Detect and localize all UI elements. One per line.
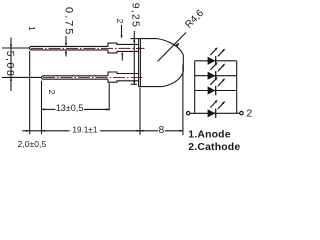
dim 13±0,5 line and arrows: [42, 108, 110, 110]
schematic rail wire 1: [195, 60, 237, 62]
dim 8 line and arrows: [140, 130, 183, 132]
LED body outline with dome: [139, 39, 184, 87]
dome tip extension line: [182, 65, 184, 136]
terminal 1 circle: [187, 112, 190, 115]
dim 0.75 line and arrows: [65, 36, 67, 57]
dim 9,25 line and arrows: [131, 31, 137, 84]
terminal 2 circle: [240, 111, 243, 114]
dim 5,08 line and arrows: [10, 38, 12, 92]
svg-text:13±0,5: 13±0,5: [56, 103, 83, 113]
schematic bottom wire: [190, 112, 239, 114]
dim 19.1±1 / 2,0±0,5 shared line: [22, 130, 140, 132]
schematic rail wire 2: [195, 75, 237, 77]
dim 13±0,5 extension lines: [30, 51, 110, 134]
lead L1 centerline (red dashed): [31, 47, 145, 49]
lead L2 centerline (red dashed): [43, 77, 145, 79]
lead L2 (cathode pin, bottom) outline: [42, 72, 139, 82]
svg-text:2: 2: [115, 19, 125, 24]
LED D1: [208, 47, 226, 65]
svg-text:1.Anode: 1.Anode: [188, 130, 230, 141]
svg-text:2: 2: [246, 108, 252, 120]
dim 2 (top) line and arrows: [120, 25, 123, 61]
svg-text:2: 2: [47, 90, 57, 95]
svg-text:9,25: 9,25: [129, 3, 141, 28]
LED body flange: [139, 39, 141, 87]
svg-text:2.Cathode: 2.Cathode: [188, 142, 240, 153]
svg-text:1: 1: [27, 26, 37, 31]
svg-text:0.75: 0.75: [63, 7, 75, 36]
LED D3: [208, 77, 226, 95]
svg-text:19.1±1: 19.1±1: [72, 125, 97, 134]
svg-text:2,0±0,5: 2,0±0,5: [18, 139, 47, 149]
svg-text:8: 8: [159, 125, 165, 136]
schematic right bus wire: [236, 61, 238, 114]
schematic rail wire 3: [195, 90, 237, 92]
flange extension line: [139, 88, 141, 135]
svg-text:5,08: 5,08: [4, 51, 16, 78]
lead L1 (anode pin, top) outline: [29, 43, 138, 53]
LED D4: [208, 100, 226, 118]
schematic left bus wire: [194, 61, 196, 114]
R4,6 radius leader line: [158, 33, 187, 62]
LED D2: [208, 62, 226, 80]
dim 5,08 extension lines: [2, 48, 41, 77]
body top edge extension / ticks: [130, 38, 140, 40]
